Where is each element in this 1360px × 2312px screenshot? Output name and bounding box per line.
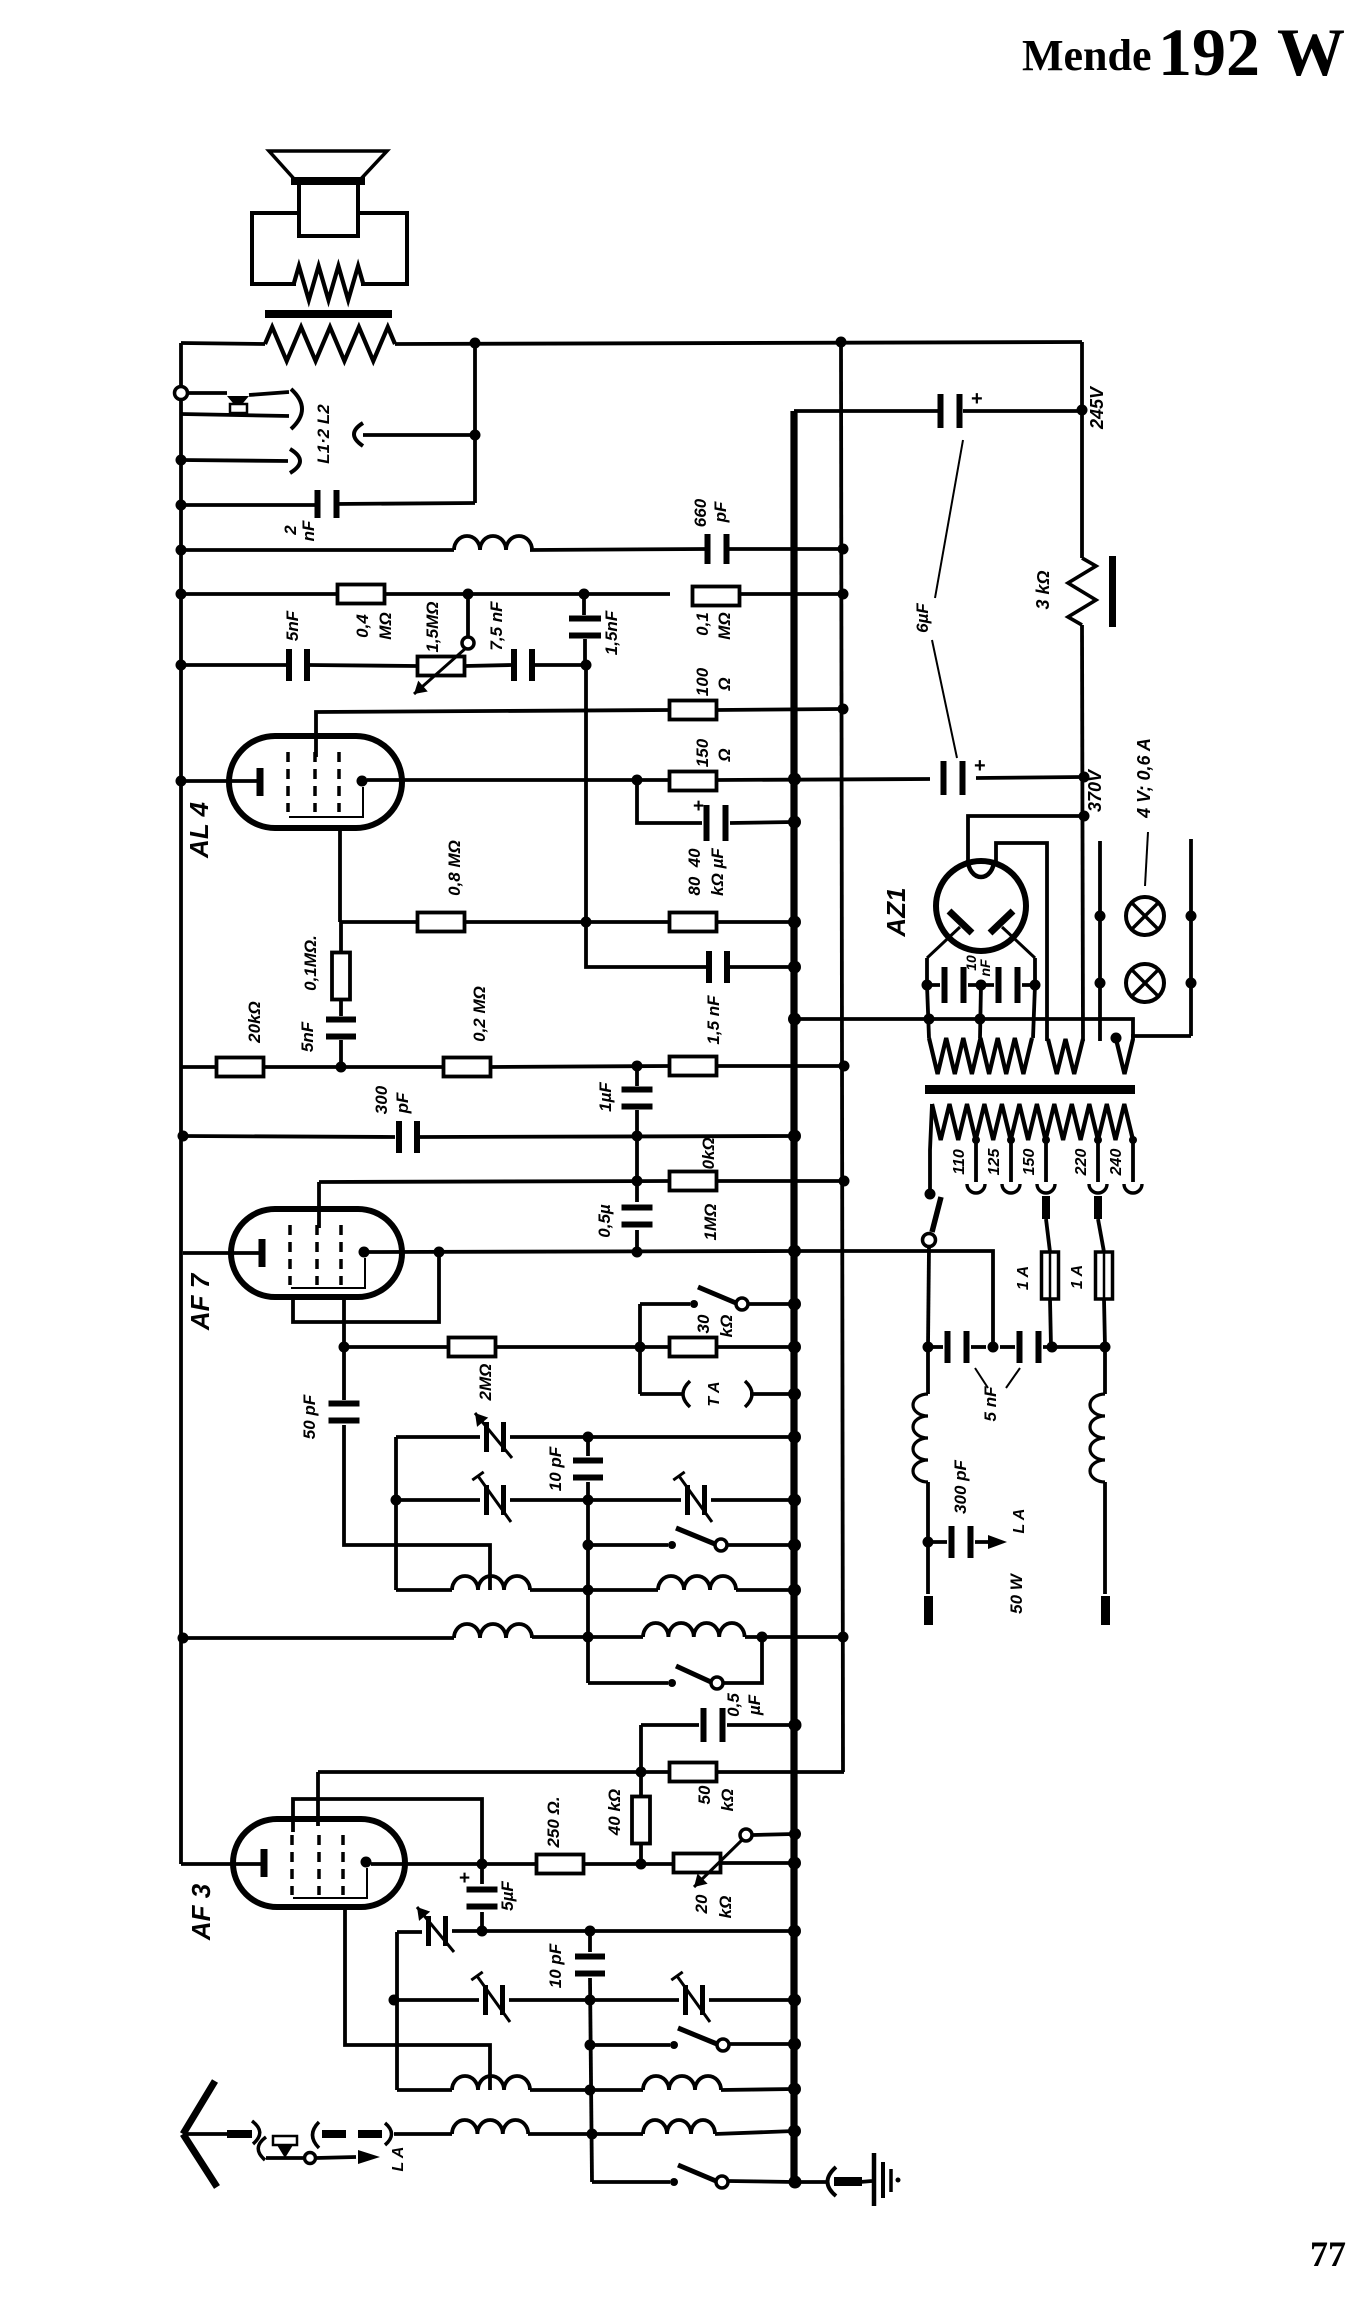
varcap AF3 c [683,1985,688,2015]
svg-text:77: 77 [1310,2234,1346,2274]
svg-text:50 pF: 50 pF [300,1394,319,1439]
node field coil / OT [470,338,481,349]
resistor 80 kOhm [670,913,717,932]
capacitor 1,5nF (top) [569,616,601,622]
capacitor 5nF b [1017,1331,1023,1363]
capacitor 50pF [329,1401,360,1407]
node row505 [176,500,187,511]
resistor 250 Ohm [537,1855,584,1874]
speaker hum-buck resistor [294,266,363,300]
node row665 left [176,660,187,671]
node filament cap right [1030,980,1041,991]
svg-text:300 pF: 300 pF [951,1459,970,1513]
capacitor 6uF upper [941,761,947,795]
bus node y1863 [788,1857,801,1870]
node row1637 left [178,1633,189,1644]
resistor 50 kOhm [670,1763,717,1782]
svg-text:20kΩ: 20kΩ [245,1001,264,1044]
node 370V top [1079,811,1090,822]
wire x482 5uF [480,1864,484,1884]
node row2045 x590 [585,2040,596,2051]
switch (TA selector) [690,1300,698,1308]
node AL4 anode x638 [632,775,643,786]
wire row 1545 switch [588,1543,668,1547]
wire x1082 [1080,342,1084,558]
svg-text:µF: µF [745,1694,764,1716]
svg-text:kΩ: kΩ [716,1896,735,1919]
wire 50pF chain [342,1347,346,1400]
bus node y2131 [788,2125,801,2138]
node AL4 cathode row [176,776,187,787]
wire right vertical x475 [473,343,477,503]
svg-text:MΩ: MΩ [715,612,734,639]
svg-text:L1·2 L2: L1·2 L2 [314,404,333,464]
svg-text:50: 50 [695,1785,714,1804]
svg-text:AZ1: AZ1 [881,887,911,937]
capacitor 7,5nF [511,649,517,681]
wire lamp rail left [1098,841,1102,1041]
svg-text:150: 150 [1021,1149,1038,1176]
node row1725 bus [789,1719,802,1732]
node mains right1 [1047,1342,1058,1353]
wire AZ1 top [968,816,1082,862]
varcap AF7 c [685,1485,690,1515]
inductor tank AF7 L1 [452,1576,530,1590]
svg-text:5µF: 5µF [498,1881,517,1911]
svg-text:+: + [459,1868,470,1889]
svg-text:+: + [971,388,983,410]
capacitor 10pF (AF3) [575,1954,605,1960]
svg-text:1MΩ: 1MΩ [701,1204,720,1241]
leader 6uF upper [935,440,963,598]
wire row 411 [794,409,938,413]
antenna lead bar [227,2130,252,2138]
transformer tap 220 [1096,1140,1100,1182]
capacitor 10pF (AF7) [573,1458,603,1464]
node row460 [176,455,187,466]
wire AF3 cathode [181,1862,261,1866]
field coil (loudspeaker) [265,327,395,361]
wire mains switch down [928,1247,929,1347]
svg-text:0,5: 0,5 [724,1693,743,1717]
wire row 1683 switch [588,1681,668,1685]
mains switch [925,1189,936,1200]
node row1931 x482 [477,1926,488,1937]
svg-text:1,5MΩ: 1,5MΩ [423,601,442,652]
svg-text:7,5 nF: 7,5 nF [487,601,506,651]
pot 20k arrow [694,1840,742,1887]
wire row 2182 switch [592,2180,670,2184]
lamp node 1191,983 [1186,978,1197,989]
node 245V [1077,405,1088,416]
svg-text:pF: pF [393,1092,412,1114]
wire row 594 [181,592,338,596]
node bus bottom [789,2176,802,2189]
terminal (speaker jack) [175,387,188,400]
node row2000 x590 [585,1995,596,2006]
svg-text:250 Ω.: 250 Ω. [544,1796,563,1848]
svg-text:kΩ: kΩ [717,1315,736,1338]
capacitor 1,5nF (cathode) [706,951,712,983]
svg-text:T A: T A [706,1381,723,1406]
wire secondary left end [930,1104,932,1190]
speaker neck [299,185,358,236]
antenna coupling arcs [252,2121,260,2144]
coil L1 arc b [290,449,300,473]
node filament cap mid [976,980,987,991]
resistor 0,1 MOhm (chain) [332,953,350,1000]
wire AL4 screen down [338,828,342,922]
svg-text:150: 150 [693,738,712,767]
svg-text:40 kΩ: 40 kΩ [605,1789,624,1836]
svg-text:245V: 245V [1087,385,1107,430]
wire row 1181 [319,1181,670,1182]
node row922 x586 [581,917,592,928]
svg-text:AF 3: AF 3 [186,1883,216,1941]
speaker magnet box [252,213,407,284]
node 1437 x588 [583,1432,594,1443]
wire row 1772 [318,1770,670,1774]
node row594 left [176,589,187,600]
svg-text:20: 20 [692,1894,711,1914]
node row594 x585 [579,589,590,600]
resistor 30 kOhm (grid) [670,1338,717,1357]
pot 1,5M wiper circle [462,637,474,649]
wire row 1500 [396,1498,480,1502]
capacitor 0,5uF (AF3) [701,1708,707,1742]
resistor 20 kOhm [217,1058,264,1077]
wire row 1136 [183,1136,395,1137]
node row1067 x637 [632,1061,643,1072]
inductor tank AF7 L2 [658,1576,736,1590]
capacitor 5nF (chain) [326,1017,356,1023]
bus node y1136 [788,1130,801,1143]
node AF7 anode x439 [434,1247,445,1258]
fuse 1A left [1048,1252,1052,1299]
wire row 2090 [397,2088,452,2092]
wire x641 40k [639,1772,643,1797]
switch row2045 [670,2041,678,2049]
svg-text:10 pF: 10 pF [546,1943,565,1988]
wire AZ1 filament caps row [927,958,940,985]
node row1136 x637 [632,1131,643,1142]
svg-text:1,5 nF: 1,5 nF [704,995,723,1045]
pot 1,5M wiper stub [466,594,470,637]
bus node y2000 [788,1994,801,2007]
bus node y1931 [788,1925,801,1938]
node x640 mid [635,1342,646,1353]
node row1931 x590 [585,1926,596,1937]
inductor row1637 L2 [643,1623,745,1637]
resistor 3 kOhm zigzag [1068,558,1096,625]
transformer tap 125 [1009,1140,1013,1182]
bus node y2044 [788,2038,801,2051]
wire AL4 grid row 712 [316,710,670,757]
svg-text:kΩ µF: kΩ µF [708,848,727,896]
bus node y1251 [788,1245,801,1258]
svg-text:pF: pF [711,501,730,523]
wire AF7 g3 down [342,1297,346,1347]
switch row1683 [668,1679,676,1687]
transformer tap 110 [974,1140,978,1182]
resistor 0,8 MOhm [418,913,465,932]
terminal bar left [924,1596,933,1625]
node mains right2 [1100,1342,1111,1353]
wire AF3 g1 loop [293,1799,482,1864]
antenna series arcs [313,2122,320,2148]
svg-text:1µF: 1µF [596,1082,615,1112]
choke right [1090,1394,1105,1482]
tube AF3 [233,1819,405,1907]
node row1772 x641 [636,1767,647,1778]
svg-text:220: 220 [1073,1149,1090,1177]
wire AF7 anode row [369,1251,794,1252]
resistor 30 kOhm [670,1057,717,1076]
capacitor 300pF [396,1121,402,1153]
node row1181 x637 [632,1176,643,1187]
leader 4V [1145,832,1148,886]
bus node y1500 [788,1494,801,1507]
node row1590 x588 [583,1585,594,1596]
wire AF3 g3 down [345,1907,490,2090]
svg-text:MΩ: MΩ [376,612,395,639]
bus node y922 [788,916,801,929]
wire to ground [795,2180,828,2184]
node filament cap left [922,980,933,991]
wire AF3 anode row [371,1862,536,1866]
wire LA tap [266,2156,303,2160]
node row342 x841 [836,337,847,348]
inductor row1637 L1 [454,1624,532,1638]
wire row 922 [341,920,418,924]
wire row 550 [181,548,454,552]
svg-text:Ω: Ω [715,677,734,691]
node row1637 x762 [757,1632,768,1643]
transformer tap 150 [1044,1140,1048,1182]
wire AL4 cathode [181,779,257,783]
svg-text:Mende: Mende [1022,31,1152,80]
bus node y1437 [788,1431,801,1444]
svg-text:0,1MΩ.: 0,1MΩ. [301,935,320,991]
node AF7 anode x637 [632,1247,643,1258]
node row712 x841 [838,704,849,715]
wire row 1437 [396,1435,480,1439]
node row1500 left [391,1495,402,1506]
speaker cone [269,151,387,181]
antenna series bars [322,2130,346,2138]
svg-text:1 A: 1 A [1015,1266,1032,1290]
wire row 1637 [183,1636,454,1640]
resistor 2 MOhm [449,1338,496,1357]
coil L1 arc a [291,389,302,429]
capacitor 10nF b [996,967,1002,1003]
wire row 1725 [641,1723,699,1727]
svg-text:0,5µ: 0,5µ [595,1204,614,1238]
resistor 0,2 MOhm [444,1058,491,1077]
antenna [183,2081,217,2187]
wire AZ1 cathode elbow [996,843,1047,1041]
transformer winding AZ1 filament [929,1038,1032,1074]
capacitor 40uF electrolytic [704,805,710,841]
wire row 1067 [181,1065,217,1069]
wire heater feed row 1019 [794,1019,1133,1040]
wire row 2045 switch [590,2043,670,2047]
coil L2 arc [354,423,363,446]
lamp node 1100,983 [1095,978,1106,989]
svg-text:AL 4: AL 4 [184,802,214,859]
wire x638 down + 40uF row [637,780,702,823]
wire row 2134 main [394,2132,452,2136]
wire AF7 cathode [183,1251,259,1255]
wire TA row [640,1392,683,1396]
svg-text:110: 110 [951,1149,968,1175]
svg-text:L A: L A [390,2147,407,2172]
wire switch 30k top [640,1302,690,1306]
svg-text:10 pF: 10 pF [546,1446,565,1491]
capacitor 5nF (AL4 grid) [286,649,292,681]
wire row 1931 [397,1930,422,1934]
jack plug triangle [227,396,249,409]
chassis bar 3k [1109,556,1116,627]
AZ1 anode left [949,911,972,933]
wire 30k row [640,1345,670,1349]
ground connector arc [828,2167,837,2196]
bus node y1590 [788,1584,801,1597]
svg-text:1 A: 1 A [1069,1265,1086,1289]
wire row 505 [181,503,320,507]
node row1019 x980 [975,1014,986,1025]
transformer winding primary section [1116,1039,1133,1074]
svg-text:5nF: 5nF [298,1021,317,1052]
wire row 665 [181,663,286,667]
leader 5nF b [1006,1368,1020,1388]
node row1637 x841 [838,1632,849,1643]
node L2 [470,430,481,441]
node row2134 x592 [587,2129,598,2140]
wire x641 1725-1772 [639,1725,643,1772]
pot 20k body [674,1854,721,1873]
varcap AF7 a [484,1422,489,1452]
svg-text:2: 2 [281,525,300,536]
resistor 40 kOhm [632,1797,650,1844]
resistor 0,1 MOhm [693,587,740,606]
svg-text:30: 30 [694,1314,713,1333]
node 1500 x588 [583,1495,594,1506]
svg-text:300: 300 [372,1085,391,1114]
node 300pF [923,1537,934,1548]
node row550 x841 [838,544,849,555]
pot 1,5M arrow [414,648,466,694]
bus node y1545 [788,1539,801,1552]
antenna jack [273,2136,297,2145]
tap 150 bar [1042,1196,1050,1219]
node row550 left [176,545,187,556]
ground symbol [872,2153,877,2206]
leader 6uF lower [932,640,957,758]
wire x590 vertical [588,1931,592,1952]
svg-text:kΩ: kΩ [718,1789,737,1812]
svg-text:0,8 MΩ: 0,8 MΩ [445,840,464,896]
speaker gap bar [265,310,392,318]
svg-text:192 W: 192 W [1158,14,1345,90]
AZ1 anode right [990,911,1013,933]
wire x586 vertical [582,594,586,615]
resistor 100 Ohm [670,701,717,720]
svg-text:660: 660 [691,498,710,527]
svg-text:0,1: 0,1 [693,612,712,636]
bus node y779 [788,773,801,786]
bus node y1019 [788,1013,801,1026]
transformer winding 4V heater [1048,1039,1083,1074]
inductor antenna L2 [643,2120,715,2134]
LA tap circle [305,2153,316,2164]
node row2090 x590 [585,2085,596,2096]
leader 5nF a [975,1368,988,1388]
wire jack bottom [181,414,289,416]
wire row 460 [181,460,288,461]
wire antenna lead [186,2132,252,2136]
wire x640 block [638,1304,642,1394]
svg-text:370V: 370V [1085,768,1105,812]
svg-text:80 40: 80 40 [685,848,704,896]
LA arrow right [988,1535,1007,1549]
wire x396 vertical [394,1437,398,1590]
inductor tank AF3 L2 [643,2076,721,2090]
wire row 342 [181,343,265,344]
transformer core [925,1085,1135,1094]
tube AZ1 [936,861,1026,951]
lamp dial 1 [1126,897,1164,935]
wire left vertical [179,343,183,387]
wire mains right lead [1103,1347,1107,1394]
bus node y1394 [788,1388,801,1401]
svg-text:50 W: 50 W [1007,1572,1026,1614]
wire AL4 anode row [367,778,670,782]
node row1067 x844 [839,1061,850,1072]
lamp node 1191,916 [1186,911,1197,922]
AF7 feedback loop [293,1252,439,1322]
resistor 0,4 MOhm [338,585,385,604]
pot 1,5M body [418,657,465,676]
svg-text:240: 240 [1108,1149,1125,1177]
varcap AF3 a [426,1916,431,1946]
lamp node 1100,916 [1095,911,1106,922]
wire AF3 g2 drop [316,1772,320,1826]
node AF3 x482 [477,1859,488,1870]
HT bus vertical [790,411,797,2182]
bus node y2089 [788,2083,801,2096]
node row1637 x588 [583,1632,594,1643]
wire winding drops [927,985,929,1038]
node row1181 x844 [839,1176,850,1187]
svg-text:+: + [693,796,704,817]
wire lamp rail right [1189,839,1193,1036]
capacitor 660pF [705,534,711,564]
resistor 150 Ohm [670,772,717,791]
wire x637 1066-1252 [635,1066,639,1086]
varcap AF7 b [484,1485,489,1515]
wire AF7 grid from row1181 [317,1182,321,1228]
wire row 1590 [396,1588,452,1592]
svg-text:Ω: Ω [715,748,734,762]
capacitor 1uF [622,1087,653,1093]
wire L2 to right [363,433,475,437]
capacitor 2nF [315,490,321,518]
switch row1545 [668,1541,676,1549]
wire row 2000 [394,1998,479,2002]
node 1545 x588 [583,1540,594,1551]
wire row 1347 left [344,1345,449,1349]
